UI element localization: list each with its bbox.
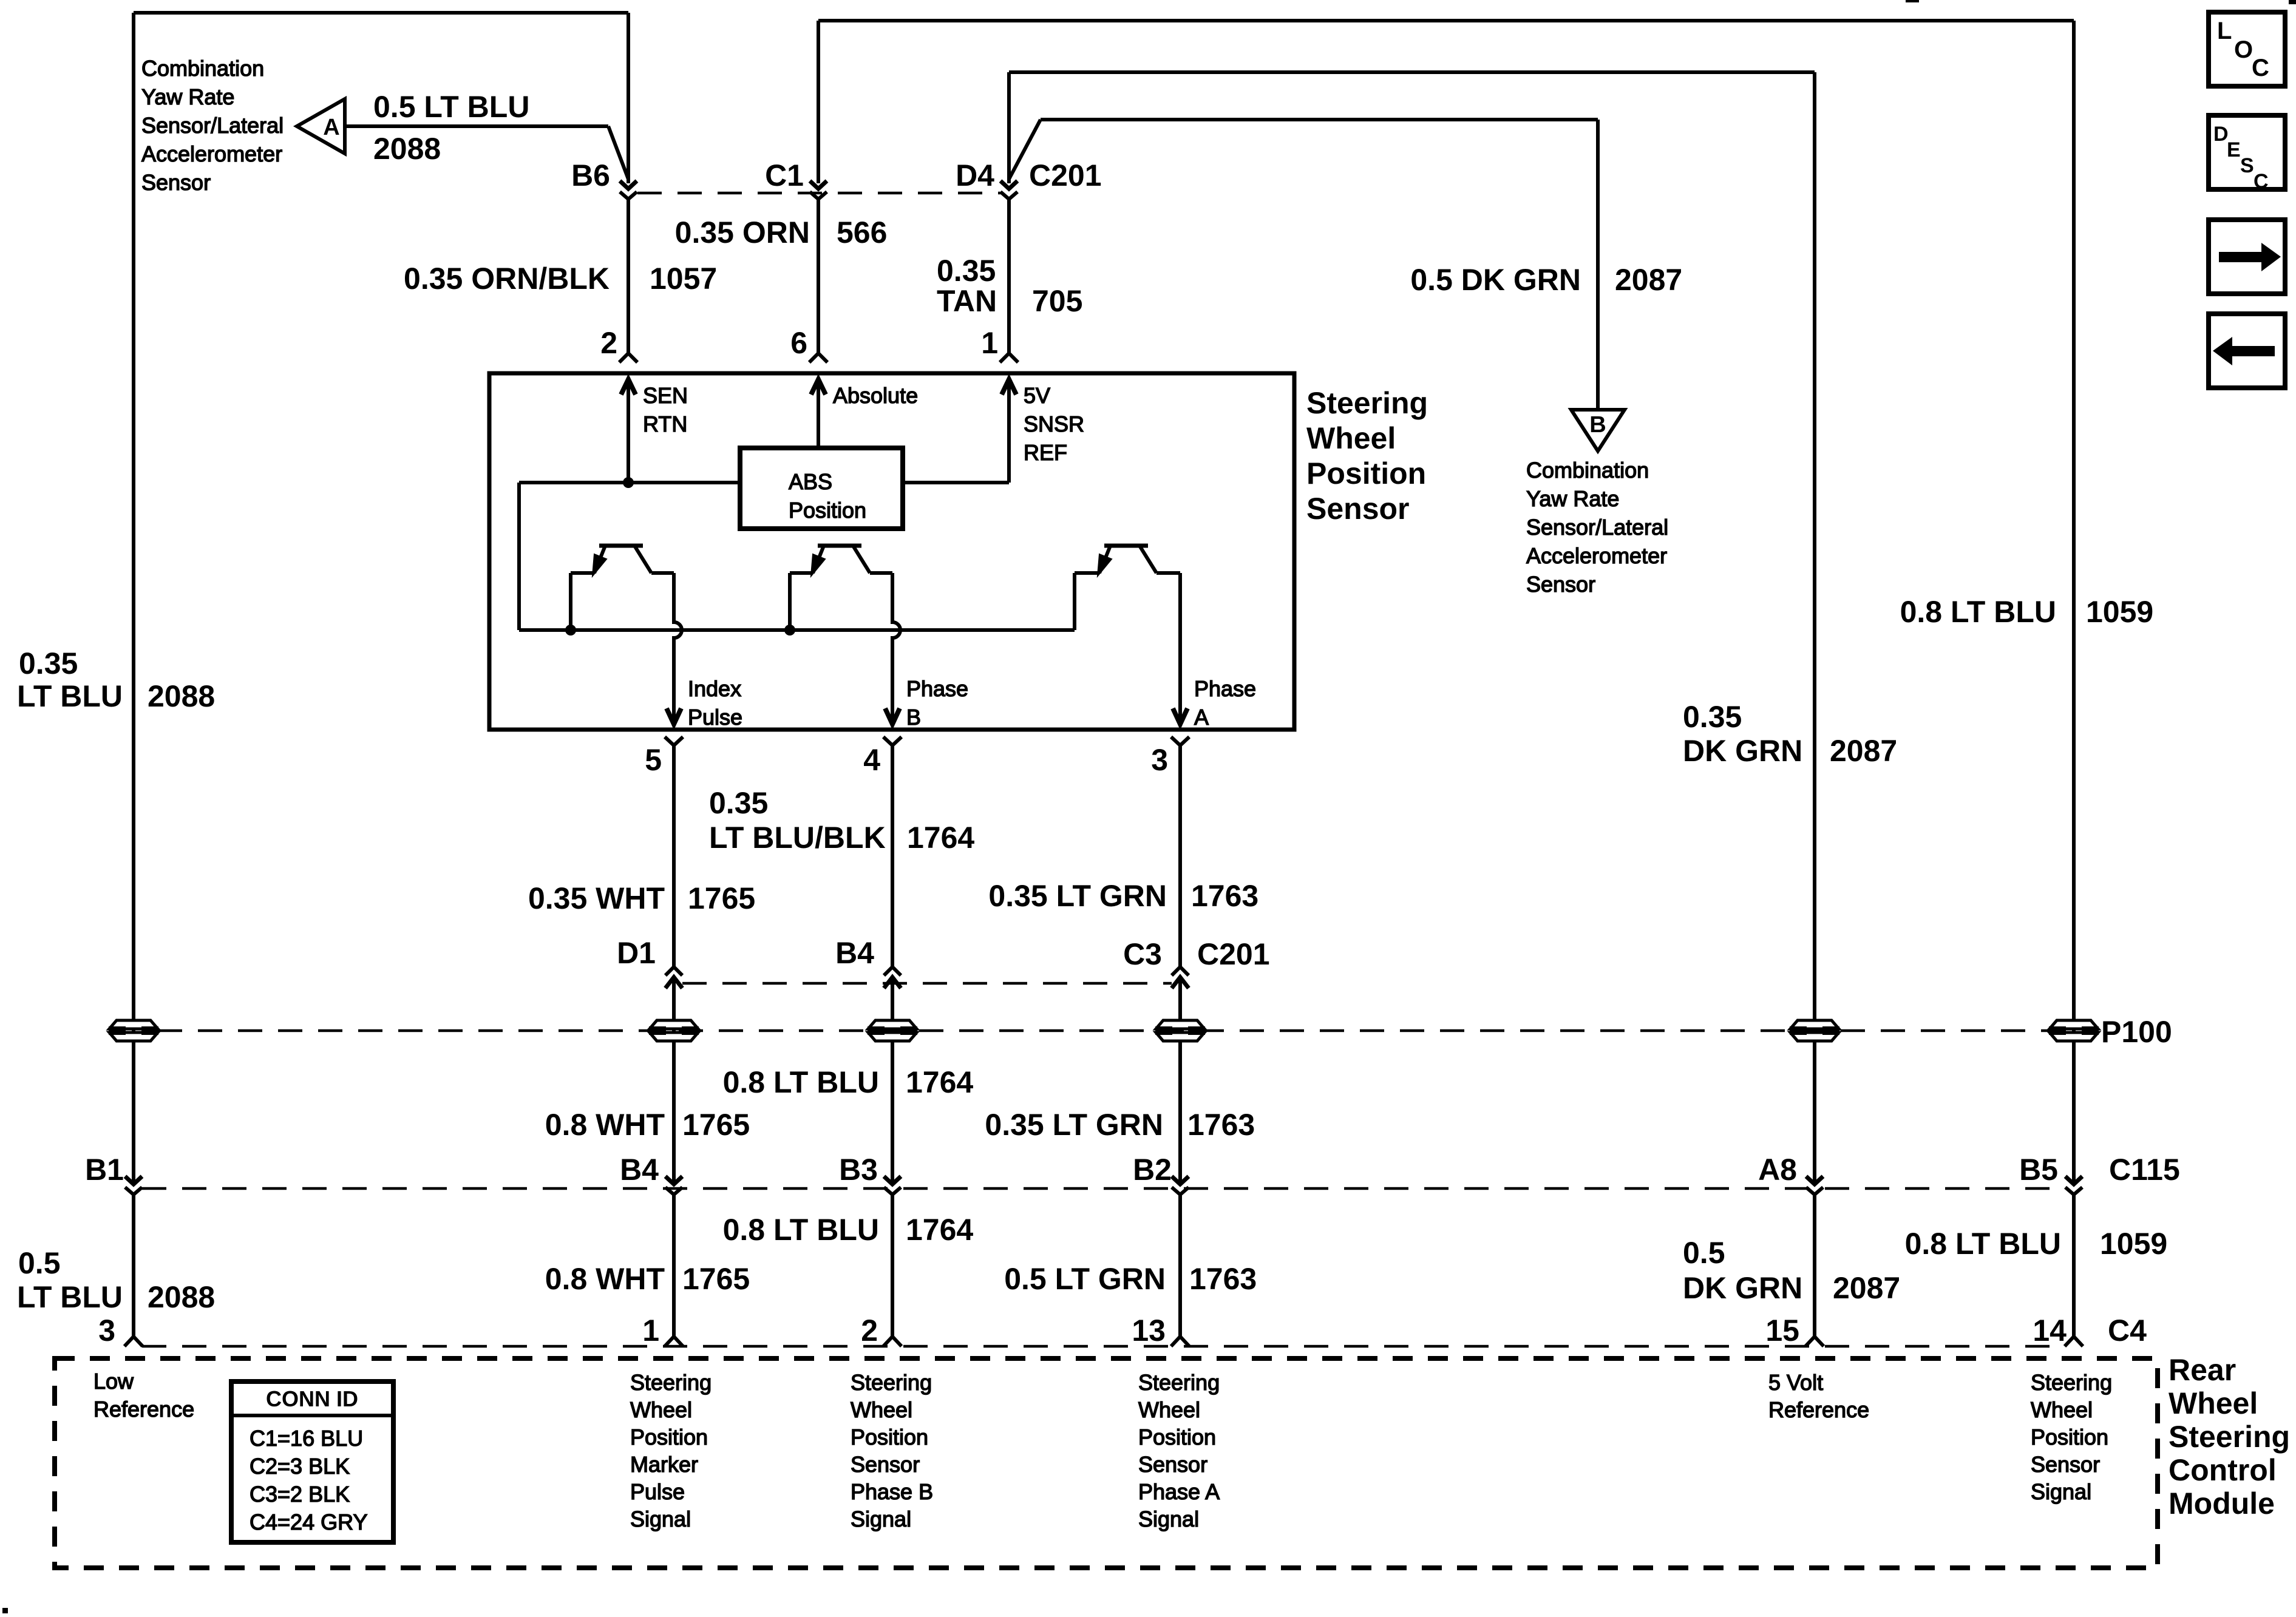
svg-text:B: B	[1589, 412, 1606, 438]
svg-text:B4: B4	[835, 936, 874, 970]
svg-text:2087: 2087	[1830, 734, 1897, 768]
svg-text:1059: 1059	[2086, 595, 2153, 629]
svg-text:Position: Position	[2031, 1425, 2108, 1449]
grommet P100 at 1059 wire	[2049, 1020, 2099, 1041]
svg-text:1: 1	[642, 1314, 659, 1347]
transistor Q2 (phase B)	[784, 546, 900, 724]
svg-text:0.35: 0.35	[709, 786, 768, 820]
grommet P100 at 1764 wire	[868, 1020, 917, 1041]
svg-text:Wheel: Wheel	[851, 1397, 912, 1422]
svg-text:Absolute: Absolute	[833, 383, 918, 408]
label 0.35 TAN	[937, 254, 997, 318]
wire B5 to module pin 14	[2065, 1195, 2083, 1346]
left wire 2088 full drop	[132, 13, 135, 1184]
pin label B5	[2019, 1153, 2058, 1187]
wire D1 down through P100	[672, 977, 676, 1184]
connector arrows at B4 C201	[884, 967, 901, 988]
label 5V SNSR REF	[1024, 383, 1084, 465]
connector C201 (top) dashed line	[637, 192, 1000, 195]
module text Steering Wheel Position Sensor Phase B Signal	[851, 1370, 933, 1531]
svg-text:1765: 1765	[682, 1108, 750, 1142]
svg-text:C3: C3	[1123, 937, 1162, 971]
ABS Position box	[740, 448, 903, 529]
wire ORN/BLK 1057 top run (left riser to B6)	[134, 13, 628, 183]
svg-text:Sensor: Sensor	[851, 1452, 920, 1477]
module text Low Reference	[93, 1369, 194, 1422]
off-page connector triangle B	[1571, 410, 1625, 451]
label 0.35 LT BLU/BLK	[709, 786, 886, 855]
svg-text:Steering: Steering	[2031, 1370, 2112, 1395]
svg-text:B6: B6	[571, 158, 610, 192]
svg-text:566: 566	[837, 215, 887, 249]
svg-text:3: 3	[98, 1314, 115, 1347]
pin label B4 (C115)	[620, 1153, 659, 1187]
svg-text:1763: 1763	[1191, 879, 1258, 913]
label 2087 (A8 wire)	[1830, 734, 1897, 768]
label 1765	[688, 881, 755, 915]
LOC nav box	[2209, 12, 2285, 86]
label 0.8 LT BLU (1764 lower)	[723, 1213, 879, 1247]
svg-text:4: 4	[863, 743, 880, 777]
svg-text:Sensor: Sensor	[1526, 572, 1595, 597]
pin label B4 (C201)	[835, 936, 874, 970]
svg-text:Pulse: Pulse	[630, 1479, 685, 1504]
svg-text:C201: C201	[1197, 937, 1270, 971]
svg-text:A8: A8	[1758, 1153, 1797, 1187]
label SEN RTN	[643, 383, 688, 436]
svg-text:E: E	[2227, 138, 2241, 161]
svg-text:0.35: 0.35	[937, 254, 996, 288]
pin label D4	[956, 158, 994, 192]
svg-text:Phase: Phase	[906, 676, 968, 701]
svg-text:C4: C4	[2108, 1314, 2147, 1347]
label 0.35 WHT	[528, 881, 665, 915]
svg-text:Yaw Rate: Yaw Rate	[1526, 486, 1619, 511]
label 0.5 DK GRN	[1410, 263, 1581, 297]
wire segment C1 to sensor pin 6	[809, 199, 827, 362]
sensor pin number 2	[600, 326, 617, 360]
label 0.5 LT BLU	[373, 90, 529, 124]
svg-text:Sensor: Sensor	[2031, 1452, 2100, 1477]
svg-text:15: 15	[1765, 1314, 1799, 1347]
module pin number 15	[1765, 1314, 1799, 1347]
svg-text:Signal: Signal	[1138, 1507, 1199, 1531]
svg-text:Reference: Reference	[1768, 1397, 1869, 1422]
module pin number 3	[98, 1314, 115, 1347]
sensor title Steering Wheel Position Sensor	[1306, 386, 1428, 526]
label Phase A	[1194, 676, 1256, 730]
label 0.8 LT BLU (B5 bottom)	[1905, 1227, 2061, 1261]
svg-text:0.8 LT BLU: 0.8 LT BLU	[723, 1065, 879, 1099]
module text Steering Wheel Position Marker Pulse Signal	[630, 1370, 712, 1531]
connector arrows at B2	[1172, 1176, 1189, 1195]
wire B1 to module pin 3	[124, 1195, 143, 1346]
internal junction line (SEN RTN bus)	[519, 481, 740, 484]
svg-text:TAN: TAN	[937, 284, 997, 318]
svg-text:Combination: Combination	[141, 56, 264, 81]
svg-text:CONN ID: CONN ID	[266, 1386, 358, 1411]
pin label B2	[1133, 1153, 1172, 1187]
svg-text:1764: 1764	[906, 1213, 973, 1247]
svg-text:C4=24 GRY: C4=24 GRY	[250, 1510, 367, 1534]
svg-text:0.8 LT BLU: 0.8 LT BLU	[1905, 1227, 2061, 1261]
pin label B1	[85, 1153, 124, 1187]
svg-text:Phase B: Phase B	[851, 1479, 933, 1504]
label 0.8 WHT (lower)	[545, 1262, 665, 1296]
connector C115 dashed line	[142, 1187, 2065, 1190]
svg-text:1057: 1057	[650, 262, 717, 296]
module connector dashed line	[142, 1345, 2065, 1348]
pin label D1	[617, 936, 656, 970]
svg-text:B2: B2	[1133, 1153, 1172, 1187]
svg-text:Phase A: Phase A	[1138, 1479, 1220, 1504]
svg-text:5 Volt: 5 Volt	[1768, 1370, 1823, 1395]
wire B2 to module pin 13	[1171, 1195, 1189, 1346]
svg-text:Sensor: Sensor	[141, 170, 211, 195]
svg-text:0.35 LT GRN: 0.35 LT GRN	[985, 1108, 1163, 1142]
svg-text:Sensor: Sensor	[1138, 1452, 1207, 1477]
svg-text:S: S	[2240, 154, 2254, 177]
label 2088	[373, 132, 441, 166]
label 2087 (A8 bottom)	[1833, 1271, 1900, 1305]
svg-text:5: 5	[645, 743, 662, 777]
wire C3 down through P100	[1178, 977, 1182, 1184]
grommet P100 at 1763 wire	[1155, 1020, 1205, 1041]
svg-text:SNSR: SNSR	[1024, 412, 1084, 436]
label 0.35 LT GRN	[988, 879, 1167, 913]
wire 566/1059 top run (C1 riser to right riser B5)	[818, 21, 2074, 1184]
svg-text:D: D	[2213, 123, 2229, 146]
svg-text:0.35 ORN: 0.35 ORN	[675, 215, 810, 249]
svg-text:Position: Position	[1138, 1425, 1216, 1449]
label 1057	[650, 262, 717, 296]
svg-text:Steering: Steering	[1138, 1370, 1220, 1395]
svg-text:5V: 5V	[1024, 383, 1050, 408]
label Absolute	[833, 383, 918, 408]
svg-text:1765: 1765	[682, 1262, 750, 1296]
label 1765 (lower)	[682, 1262, 750, 1296]
connector arrows at D1	[665, 967, 682, 988]
svg-text:LT BLU: LT BLU	[17, 1280, 123, 1314]
sensor pin number 4	[863, 743, 880, 777]
svg-text:Wheel: Wheel	[630, 1397, 692, 1422]
module text Steering Wheel Position Sensor Phase A Signal	[1138, 1370, 1220, 1531]
off-page reference text: Combination Yaw Rate Sensor/Lateral Accelerometer Sensor (A)	[141, 56, 284, 195]
svg-text:B: B	[906, 705, 921, 730]
scan artifact bottom-left dot	[2, 1608, 8, 1613]
svg-text:2087: 2087	[1615, 263, 1682, 297]
svg-text:Signal: Signal	[851, 1507, 911, 1531]
svg-text:2088: 2088	[373, 132, 441, 166]
svg-text:Accelerometer: Accelerometer	[141, 141, 282, 166]
label 0.5 DK GRN (A8 bottom)	[1683, 1236, 1802, 1305]
connector arrows at A8	[1806, 1176, 1823, 1195]
svg-text:14: 14	[2033, 1314, 2067, 1347]
module pin number 2	[861, 1314, 878, 1347]
svg-text:RTN: RTN	[643, 412, 687, 436]
connector arrows at C3	[1172, 967, 1189, 988]
wire segment D4 to sensor pin 1	[1000, 199, 1018, 362]
svg-text:A: A	[1194, 705, 1209, 730]
svg-text:REF: REF	[1024, 440, 1067, 465]
svg-text:Wheel: Wheel	[2031, 1397, 2093, 1422]
transistor Q1 (index pulse)	[565, 546, 682, 724]
connector arrows at C1 C201	[810, 181, 827, 199]
svg-text:705: 705	[1032, 284, 1082, 318]
label 2087	[1615, 263, 1682, 297]
svg-text:1765: 1765	[688, 881, 755, 915]
module text 5 Volt Reference	[1768, 1370, 1869, 1422]
internal arrow SEN RTN (pin 2)	[621, 379, 636, 483]
svg-text:Signal: Signal	[630, 1507, 691, 1531]
svg-text:Position: Position	[789, 498, 866, 523]
svg-text:Control: Control	[2169, 1453, 2277, 1487]
svg-text:0.35 WHT: 0.35 WHT	[528, 881, 665, 915]
connector arrows at B5	[2065, 1176, 2082, 1195]
pin label C1	[765, 158, 804, 192]
label P100	[2101, 1015, 2172, 1049]
label 1059 (B5 wire)	[2086, 595, 2153, 629]
next-page arrow box	[2209, 220, 2285, 294]
label 0.35 LT GRN (lower)	[985, 1108, 1163, 1142]
wire A8 to module pin 15	[1805, 1195, 1824, 1346]
svg-text:6: 6	[790, 326, 807, 360]
svg-text:13: 13	[1132, 1314, 1166, 1347]
label 2088 (left bottom)	[148, 1280, 215, 1314]
svg-text:C1: C1	[765, 158, 804, 192]
svg-text:LT BLU: LT BLU	[17, 679, 123, 713]
svg-text:3: 3	[1151, 743, 1168, 777]
svg-text:0.5 DK GRN: 0.5 DK GRN	[1410, 263, 1581, 297]
svg-text:Rear: Rear	[2169, 1353, 2236, 1387]
svg-text:Combination: Combination	[1526, 458, 1649, 483]
svg-text:2088: 2088	[148, 1280, 215, 1314]
module text Steering Wheel Position Sensor Signal	[2031, 1370, 2112, 1504]
connector arrows at B6 C201	[620, 181, 637, 199]
svg-text:Pulse: Pulse	[688, 705, 742, 730]
connector arrows at D4 C201	[1000, 181, 1017, 199]
internal arrow 5V SNSR REF (pin 1)	[1002, 379, 1016, 483]
sensor pin number 3	[1151, 743, 1168, 777]
svg-text:Phase: Phase	[1194, 676, 1256, 701]
svg-text:Marker: Marker	[630, 1452, 698, 1477]
connector C201 label	[1029, 158, 1102, 192]
connector arrows at B4 C115	[665, 1176, 682, 1195]
pin label B3	[839, 1153, 878, 1187]
svg-text:Sensor/Lateral: Sensor/Lateral	[1526, 515, 1668, 540]
svg-text:1764: 1764	[906, 1065, 973, 1099]
internal arrow Absolute (pin 6)	[811, 379, 826, 448]
svg-text:C1=16 BLU: C1=16 BLU	[250, 1426, 363, 1451]
junction dot pin2/bus	[623, 477, 634, 488]
svg-text:B3: B3	[839, 1153, 878, 1187]
DESC nav box	[2209, 115, 2285, 193]
label 0.35 ORN	[675, 215, 810, 249]
svg-text:LT BLU/BLK: LT BLU/BLK	[709, 821, 886, 855]
sensor pin number 5	[645, 743, 662, 777]
svg-text:1763: 1763	[1189, 1262, 1257, 1296]
sensor pin number 6	[790, 326, 807, 360]
svg-text:Steering: Steering	[2169, 1420, 2290, 1454]
svg-text:Sensor/Lateral: Sensor/Lateral	[141, 113, 284, 138]
label 1764	[907, 821, 974, 855]
scan artifact top edge tick	[1906, 0, 2296, 4]
P100 dashed line	[158, 1029, 2050, 1032]
wire B4 down through P100	[891, 977, 894, 1184]
label Index Pulse	[688, 676, 742, 730]
svg-text:DK GRN: DK GRN	[1683, 734, 1802, 768]
label 2088 (left wire)	[148, 679, 215, 713]
svg-text:Index: Index	[688, 676, 741, 701]
svg-text:1: 1	[981, 326, 998, 360]
module name Rear Wheel Steering Control Module	[2169, 1353, 2290, 1520]
svg-text:Position: Position	[851, 1425, 928, 1449]
svg-text:Accelerometer: Accelerometer	[1526, 543, 1667, 568]
transistor Q3 (phase A)	[1075, 546, 1187, 724]
wire segment B6 to sensor pin 2	[619, 199, 637, 362]
internal emitter rail	[519, 628, 1075, 632]
svg-text:0.35 LT GRN: 0.35 LT GRN	[988, 879, 1167, 913]
off-page connector triangle A	[297, 99, 345, 154]
connector arrows at B3	[884, 1176, 901, 1195]
label 705	[1032, 284, 1082, 318]
rear wheel steering control module box (dashed)	[55, 1358, 2158, 1568]
svg-text:0.35 ORN/BLK: 0.35 ORN/BLK	[404, 262, 610, 296]
svg-text:C201: C201	[1029, 158, 1102, 192]
svg-text:B1: B1	[85, 1153, 124, 1187]
connector C201 (lower) dashed line	[682, 982, 1172, 985]
svg-text:2088: 2088	[148, 679, 215, 713]
wire 0.5 LT BLU 2088 from triangle A to B6	[345, 126, 628, 179]
label 1059 (B5 bottom)	[2100, 1227, 2167, 1261]
svg-text:Low: Low	[93, 1369, 134, 1394]
off-page reference text: Combination Yaw Rate Sensor/Lateral Accelerometer Sensor (B)	[1526, 458, 1668, 597]
wire B4 to module pin 1	[665, 1195, 683, 1346]
svg-text:B4: B4	[620, 1153, 659, 1187]
svg-text:0.5 LT BLU: 0.5 LT BLU	[373, 90, 529, 124]
label 0.8 LT BLU (B5 wire)	[1900, 595, 2056, 629]
svg-text:Reference: Reference	[93, 1397, 194, 1422]
label 0.5 LT GRN	[1004, 1262, 1166, 1296]
svg-text:Sensor: Sensor	[1306, 492, 1410, 526]
svg-text:C2=3 BLK: C2=3 BLK	[250, 1454, 350, 1479]
wire B3 to module pin 2	[883, 1195, 902, 1346]
label 1763	[1191, 879, 1258, 913]
svg-text:C3=2 BLK: C3=2 BLK	[250, 1482, 350, 1507]
svg-text:SEN: SEN	[643, 383, 688, 408]
label 0.35 LT BLU (left wire)	[17, 646, 123, 713]
svg-text:Wheel: Wheel	[1306, 421, 1396, 455]
svg-text:0.5 LT GRN: 0.5 LT GRN	[1004, 1262, 1166, 1296]
pin label B6	[571, 158, 610, 192]
svg-text:0.5: 0.5	[1683, 1236, 1725, 1270]
module pin number 14	[2033, 1314, 2067, 1347]
svg-text:Yaw Rate: Yaw Rate	[141, 84, 234, 109]
internal left drop	[517, 483, 521, 630]
pin label A8	[1758, 1153, 1797, 1187]
svg-text:ABS: ABS	[789, 469, 832, 494]
CONN ID table box	[231, 1381, 393, 1542]
svg-text:Steering: Steering	[1306, 386, 1428, 420]
svg-text:Module: Module	[2169, 1486, 2275, 1520]
connector arrows at B1	[125, 1176, 142, 1195]
svg-text:Signal: Signal	[2031, 1479, 2091, 1504]
svg-text:2: 2	[600, 326, 617, 360]
svg-text:1764: 1764	[907, 821, 974, 855]
wire pin 5 to C201 D1	[665, 737, 683, 966]
svg-text:0.8 LT BLU: 0.8 LT BLU	[1900, 595, 2056, 629]
svg-text:Position: Position	[630, 1425, 708, 1449]
svg-text:Wheel: Wheel	[2169, 1386, 2258, 1420]
prev-page arrow box	[2209, 314, 2285, 388]
connector C4 label	[2108, 1314, 2147, 1347]
grommet P100 at 1765 wire	[649, 1020, 699, 1041]
label 1763 (bottom)	[1189, 1262, 1257, 1296]
label 0.8 LT BLU (1764 upper)	[723, 1065, 879, 1099]
label 1764 (upper)	[906, 1065, 973, 1099]
svg-text:0.8 WHT: 0.8 WHT	[545, 1262, 665, 1296]
steering wheel position sensor box	[489, 373, 1294, 730]
svg-text:L: L	[2217, 18, 2232, 44]
grommet P100 at left 2088 wire	[109, 1020, 158, 1041]
svg-text:0.8 WHT: 0.8 WHT	[545, 1108, 665, 1142]
svg-text:C: C	[2254, 170, 2269, 193]
svg-text:O: O	[2234, 36, 2253, 63]
svg-text:0.5: 0.5	[18, 1246, 61, 1280]
svg-text:C115: C115	[2109, 1153, 2180, 1187]
label 0.35 DK GRN (A8 wire)	[1683, 700, 1802, 768]
wire pin 3 to C201 C3	[1171, 737, 1189, 966]
svg-text:2087: 2087	[1833, 1271, 1900, 1305]
pin label C3	[1123, 937, 1162, 971]
module pin number 13	[1132, 1314, 1166, 1347]
svg-text:C: C	[2252, 55, 2269, 81]
svg-text:0.8 LT BLU: 0.8 LT BLU	[723, 1213, 879, 1247]
svg-text:1059: 1059	[2100, 1227, 2167, 1261]
connector C201 lower label	[1197, 937, 1270, 971]
svg-text:0.35: 0.35	[19, 646, 78, 680]
wire 0.5 DK GRN 2087 run to triangle B	[1009, 120, 1598, 408]
svg-text:D4: D4	[956, 158, 994, 192]
label 1763 (lower)	[1187, 1108, 1255, 1142]
svg-text:0.35: 0.35	[1683, 700, 1742, 734]
svg-text:Steering: Steering	[851, 1370, 932, 1395]
svg-text:D1: D1	[617, 936, 656, 970]
label 1764 (lower)	[906, 1213, 973, 1247]
svg-text:A: A	[323, 115, 339, 140]
grommet P100 at 2087 wire	[1790, 1020, 1839, 1041]
wire pin 4 to C201 B4	[883, 737, 902, 966]
label 0.35 ORN/BLK	[404, 262, 610, 296]
svg-text:Steering: Steering	[630, 1370, 712, 1395]
label 0.5 LT BLU (left bottom)	[17, 1246, 123, 1314]
connector C115 label	[2109, 1153, 2180, 1187]
svg-text:1763: 1763	[1187, 1108, 1255, 1142]
label 1765 (upper)	[682, 1108, 750, 1142]
svg-text:B5: B5	[2019, 1153, 2058, 1187]
label 566	[837, 215, 887, 249]
module pin number 1	[642, 1314, 659, 1347]
svg-text:DK GRN: DK GRN	[1683, 1271, 1802, 1305]
sensor pin number 1	[981, 326, 998, 360]
internal wire ABS to pin1 riser	[903, 481, 1009, 484]
label Phase B	[906, 676, 968, 730]
label 0.8 WHT (upper)	[545, 1108, 665, 1142]
svg-text:Wheel: Wheel	[1138, 1397, 1200, 1422]
svg-text:P100: P100	[2101, 1015, 2172, 1049]
svg-text:2: 2	[861, 1314, 878, 1347]
wire 705/2087 top run (D4 riser to right riser A8)	[1009, 72, 1815, 1184]
